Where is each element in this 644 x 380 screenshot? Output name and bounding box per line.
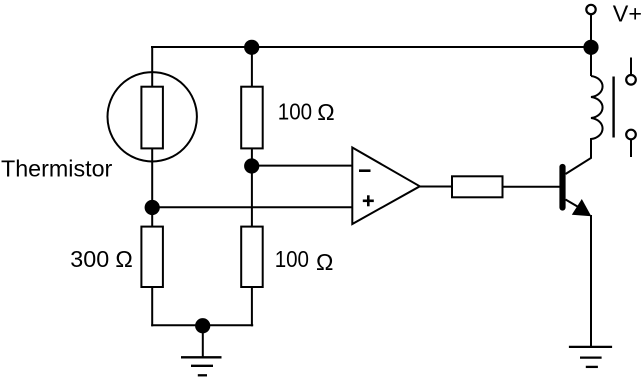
node B (top rail / relay coil) [583,40,598,55]
relay contact upper stem [630,58,632,76]
thermistor RT1 body [141,87,163,149]
transistor Q1 collector lead [566,139,592,174]
node D (bridge right midpoint) [244,158,259,173]
resistor R100 top body [241,87,263,149]
svg-text:Ω: Ω [317,99,334,125]
label 100 ohm top value [278,99,335,125]
wire node A to R100 top [251,47,253,87]
wire base [503,186,561,188]
svg-text:100: 100 [278,99,312,125]
resistor R300 body [141,227,163,287]
terminal V+ [586,5,595,14]
wire bottom rail [151,324,253,326]
wire coil top lead [590,47,592,76]
transistor Q1 emitter arrow [572,199,592,216]
relay contact upper terminal [626,75,636,85]
op-amp U1 plus pin mark [363,195,374,206]
wire thermistor bottom [151,148,153,207]
svg-text:100: 100 [275,246,309,272]
op-amp U1 [352,148,420,225]
wire R300 bottom [151,287,153,326]
wire plus input [152,206,352,208]
wire R100 top to node D [251,148,253,166]
transistor Q1 base bar [559,167,565,208]
node E (ground junction) [195,318,210,333]
ground left [181,357,222,375]
resistor base body [452,176,503,197]
svg-text:Thermistor: Thermistor [1,156,113,182]
relay core bar [612,77,614,138]
wire minus input [252,165,353,167]
resistor R100 bottom body [241,227,263,287]
node A (top rail / bridge right branch) [244,40,259,55]
wire top rail [151,46,591,48]
svg-text:300: 300 [70,246,109,272]
op-amp U1 minus pin mark [359,169,371,172]
wire node C to R300 [151,208,153,227]
node C (thermistor / 300 ohm junction) [145,200,160,215]
wire thermistor top [151,46,153,87]
label 100 ohm bottom value [275,246,334,275]
transistor Q1 emitter lead [566,200,581,209]
wire ground stem left [202,325,204,357]
relay coil L1 [591,76,603,158]
label 300 ohm value [70,246,133,272]
svg-text:Ω: Ω [316,249,333,275]
svg-text:Ω: Ω [115,246,132,272]
wire node D to R100 bottom [251,166,253,227]
svg-text:V+: V+ [613,0,642,26]
ground right [569,347,612,367]
thermistor RT1 circle [108,72,197,161]
wire emitter down [590,215,592,347]
relay contact lower stem [630,140,632,158]
wire op-amp output [420,186,452,188]
wire R100 bottom to bottom rail [251,287,253,326]
wire V+ stem [590,14,592,47]
relay contact lower terminal [626,130,636,140]
